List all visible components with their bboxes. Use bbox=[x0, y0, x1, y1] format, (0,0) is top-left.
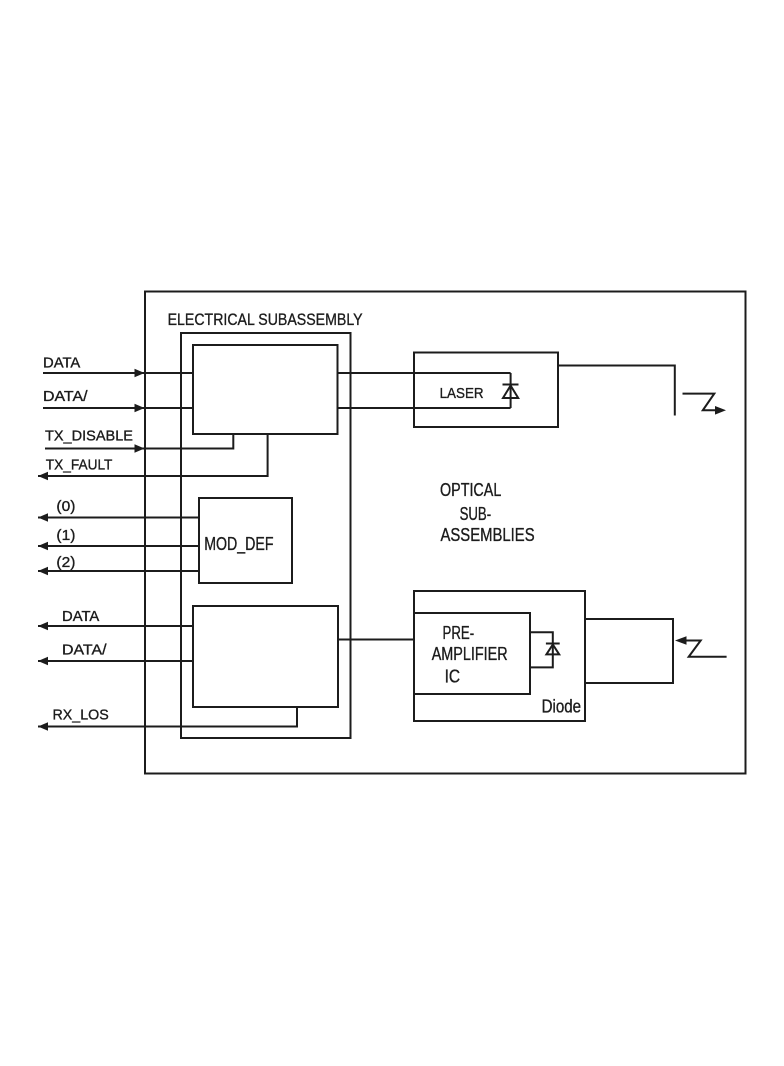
svg-text:SUB-: SUB- bbox=[460, 504, 492, 524]
wire laser output to fiber bbox=[558, 366, 675, 416]
laser OSA box bbox=[414, 353, 558, 428]
arrowheads bbox=[38, 369, 145, 731]
wire RX_LOS bbox=[38, 707, 297, 727]
arrow DATA (tx) right bbox=[135, 369, 145, 378]
svg-text:(1): (1) bbox=[56, 527, 75, 544]
wire MOD_DEF(0) bbox=[38, 517, 199, 519]
arrow DATA (rx) left bbox=[38, 622, 48, 631]
wire MOD_DEF(1) bbox=[38, 545, 199, 547]
arrow RX_LOS left bbox=[38, 722, 48, 731]
arrow MOD_DEF(2) left bbox=[38, 567, 48, 576]
arrow MOD_DEF(1) left bbox=[38, 542, 48, 551]
arrow DATA/ (tx) right bbox=[135, 404, 145, 413]
svg-text:LASER: LASER bbox=[440, 385, 484, 402]
wire laser drive + bbox=[338, 372, 511, 374]
svg-text:PRE-: PRE- bbox=[443, 623, 475, 643]
module outline (outer rectangle) bbox=[145, 292, 746, 774]
svg-text:(0): (0) bbox=[56, 498, 75, 515]
wire MOD_DEF(2) bbox=[38, 570, 199, 572]
electrical subassembly outline bbox=[181, 333, 351, 738]
MOD_DEF block U2 bbox=[199, 498, 292, 583]
wire DATA (rx) bbox=[38, 625, 193, 627]
laser diode D1 symbol bbox=[503, 385, 519, 399]
tx fiber arrowhead bbox=[715, 406, 726, 415]
fiber receptacle box bbox=[585, 619, 673, 683]
pre-amplifier IC box bbox=[414, 613, 530, 694]
arrow TX_DISABLE right bbox=[135, 444, 145, 453]
svg-text:(2): (2) bbox=[56, 554, 75, 571]
svg-text:ASSEMBLIES: ASSEMBLIES bbox=[441, 525, 535, 545]
svg-text:ELECTRICAL SUBASSEMBLY: ELECTRICAL SUBASSEMBLY bbox=[168, 310, 363, 329]
wire TX_FAULT bbox=[38, 434, 268, 476]
svg-text:MOD_DEF: MOD_DEF bbox=[204, 534, 273, 555]
rx fiber arrowhead bbox=[675, 636, 687, 645]
rx fiber zigzag symbol bbox=[686, 641, 727, 657]
svg-text:AMPLIFIER: AMPLIFIER bbox=[432, 644, 508, 664]
wire DATA/ (rx) bbox=[38, 660, 193, 662]
photodiode D2 symbol bbox=[546, 644, 560, 655]
receiver/quantizer block U3 bbox=[193, 606, 338, 707]
svg-text:IC: IC bbox=[445, 667, 461, 687]
wire preamp input bbox=[338, 639, 414, 641]
svg-text:TX_FAULT: TX_FAULT bbox=[46, 457, 113, 474]
wire DATA (tx) bbox=[43, 372, 193, 374]
receiver OSA box bbox=[414, 591, 585, 721]
svg-text:DATA/: DATA/ bbox=[43, 388, 88, 405]
wire photodiode loop bbox=[530, 632, 553, 667]
wire laser drive - bbox=[338, 407, 511, 409]
wire laser diode cathode-anode vertical bbox=[510, 373, 512, 408]
svg-text:DATA/: DATA/ bbox=[62, 641, 107, 658]
tx fiber zigzag symbol bbox=[683, 394, 716, 411]
svg-text:DATA: DATA bbox=[62, 608, 99, 625]
svg-text:RX_LOS: RX_LOS bbox=[53, 706, 109, 723]
arrow DATA/ (rx) left bbox=[38, 657, 48, 666]
svg-text:TX_DISABLE: TX_DISABLE bbox=[45, 427, 133, 444]
wire DATA/ (tx) bbox=[43, 407, 193, 409]
arrow MOD_DEF(0) left bbox=[38, 513, 48, 522]
laser driver block U1 bbox=[193, 345, 338, 434]
wire TX_DISABLE bbox=[45, 434, 233, 449]
arrow TX_FAULT left bbox=[38, 472, 48, 481]
svg-text:Diode: Diode bbox=[542, 697, 582, 717]
svg-text:OPTICAL: OPTICAL bbox=[440, 480, 501, 500]
svg-text:DATA: DATA bbox=[43, 355, 80, 372]
